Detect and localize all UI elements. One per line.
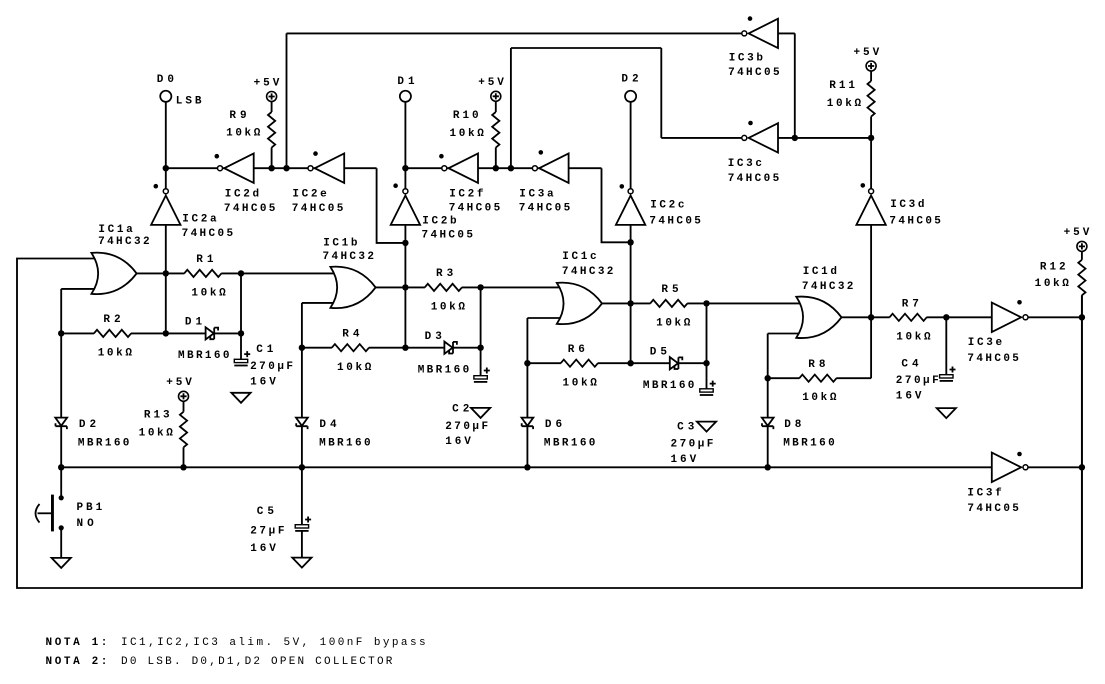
svg-text:+5V: +5V bbox=[478, 77, 504, 89]
svg-text:16V: 16V bbox=[445, 436, 471, 448]
svg-text:270µF: 270µF bbox=[896, 375, 939, 387]
svg-text:R12: R12 bbox=[1040, 261, 1066, 273]
svg-text:NOTA 2:: NOTA 2: bbox=[46, 656, 108, 668]
svg-text:16V: 16V bbox=[250, 543, 276, 555]
svg-text:R10: R10 bbox=[453, 110, 479, 122]
svg-text:16V: 16V bbox=[671, 454, 697, 466]
svg-text:270µF: 270µF bbox=[250, 361, 293, 373]
svg-text:16V: 16V bbox=[250, 376, 276, 388]
svg-text:D0 LSB. D0,D1,D2 OPEN COLLECT: D0 LSB. D0,D1,D2 OPEN COLLECTOR bbox=[121, 656, 393, 668]
svg-text:R11: R11 bbox=[829, 80, 855, 92]
svg-text:+5V: +5V bbox=[166, 377, 192, 389]
svg-text:R13: R13 bbox=[144, 410, 170, 422]
svg-text:270µF: 270µF bbox=[445, 421, 488, 433]
svg-text:LSB: LSB bbox=[176, 95, 202, 107]
svg-text:16V: 16V bbox=[896, 391, 922, 403]
svg-text:+5V: +5V bbox=[254, 77, 280, 89]
svg-text:NOTA 1:: NOTA 1: bbox=[46, 637, 108, 649]
svg-text:+5V: +5V bbox=[1064, 227, 1090, 239]
svg-text:PB1: PB1 bbox=[77, 502, 103, 514]
svg-text:+5V: +5V bbox=[854, 47, 880, 59]
svg-text:270µF: 270µF bbox=[671, 438, 714, 450]
